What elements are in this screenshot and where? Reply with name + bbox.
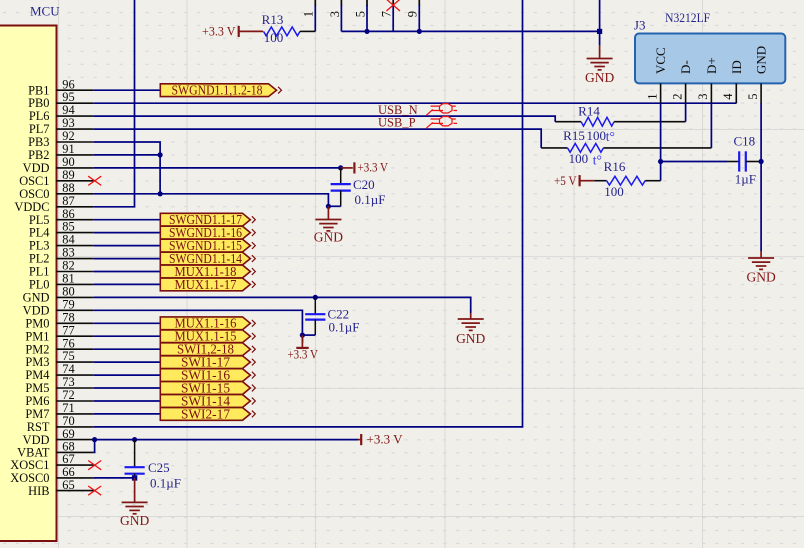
MCU pin 79 VDD [23, 297, 94, 317]
MCU pin 89 OSC1 [19, 168, 94, 188]
port SWI1-15 [160, 381, 255, 396]
svg-text:GND: GND [754, 46, 769, 74]
junction at pin9/GND wire [417, 29, 422, 34]
connector J3 N3212LF body [634, 10, 785, 84]
svg-text:+3.3 V: +3.3 V [367, 432, 404, 447]
svg-text:PB0: PB0 [28, 96, 49, 110]
wire RST net vertical [94, 0, 523, 427]
MCU pin 80 GND [23, 285, 94, 305]
MCU pin 91 PB2 [28, 142, 94, 162]
MCU pin 92 PB3 [28, 129, 94, 149]
svg-text:79: 79 [62, 297, 74, 311]
wire PB2 pin91 joins vertical [94, 154, 160, 156]
svg-text:0.1µF: 0.1µF [329, 320, 360, 335]
resistor R15 [541, 128, 711, 152]
port SWI1-17 [160, 356, 255, 371]
svg-text:GND: GND [23, 291, 50, 305]
MCU pin 69 VDD [23, 427, 94, 447]
svg-text:1µF: 1µF [735, 171, 756, 186]
port MUX1.1-17 [160, 278, 255, 293]
port SWI1,2-18 [160, 343, 255, 358]
ground symbol near connector [599, 46, 601, 59]
port SWI2-17 [160, 407, 255, 422]
svg-text:GND: GND [456, 331, 485, 346]
svg-text:t°: t° [606, 129, 615, 144]
svg-text:t°: t° [593, 153, 602, 168]
wire pin83 to port [94, 258, 161, 260]
svg-text:J3: J3 [634, 18, 646, 33]
svg-text:85: 85 [62, 220, 74, 234]
svg-text:1: 1 [645, 94, 659, 100]
port SWGND1.1-17 [160, 213, 255, 228]
capacitor C25 [125, 440, 181, 491]
svg-text:65: 65 [62, 478, 74, 492]
svg-text:PM0: PM0 [25, 316, 49, 330]
MCU pin 70 RST [27, 414, 94, 434]
svg-text:5: 5 [746, 94, 760, 100]
wire USB_P net (pin93 to R15) [94, 129, 541, 148]
MCU pin 96 PB1 [28, 77, 94, 97]
svg-text:PL0: PL0 [29, 278, 50, 292]
wire J3 D- pin2 down to R14 [685, 103, 687, 122]
svg-text:PM5: PM5 [25, 381, 49, 395]
svg-text:100: 100 [604, 184, 624, 199]
capacitor C22 [302, 297, 359, 335]
svg-text:MUX1.1-17: MUX1.1-17 [175, 278, 237, 293]
MCU pin 83 PL2 [29, 246, 94, 266]
wire pin71 to port [94, 413, 161, 415]
svg-text:PL2: PL2 [29, 252, 50, 266]
svg-text:R13: R13 [262, 12, 284, 27]
svg-text:88: 88 [62, 181, 74, 195]
MCU pin 94 PL6 [29, 103, 94, 123]
diff pair directive USB_P [426, 117, 457, 129]
wire C18 branch [661, 161, 727, 163]
MCU pin 90 VDD [23, 155, 94, 175]
junction VCC/C18 [658, 159, 663, 164]
MCU pin 95 PB0 [28, 90, 94, 110]
svg-text:PM7: PM7 [25, 407, 49, 421]
wire VDD pin90 to +3.3V [94, 167, 341, 169]
wire VBAT pin68 up to VDD net [93, 440, 96, 453]
svg-text:90: 90 [62, 155, 74, 169]
svg-text:+3.3 V: +3.3 V [287, 346, 318, 361]
MCU pin 76 PM2 [25, 336, 93, 356]
wire pin78 to port [94, 322, 161, 324]
ground at J3 pin5 [746, 251, 775, 285]
svg-text:78: 78 [62, 310, 74, 324]
capacitor C20 [328, 168, 385, 207]
J3 pin 5 GND [746, 46, 769, 103]
svg-text:PB2: PB2 [28, 148, 49, 162]
MCU pin 77 PM1 [25, 323, 93, 343]
svg-text:81: 81 [62, 272, 74, 286]
MCU pin 86 PL5 [29, 207, 94, 227]
svg-text:9: 9 [406, 11, 420, 17]
MCU pin 67 XOSC1 [10, 452, 94, 472]
svg-text:USB_P: USB_P [378, 116, 416, 130]
svg-text:4: 4 [721, 93, 735, 100]
svg-text:96: 96 [62, 77, 74, 91]
wire from top edge into GND junction [599, 0, 601, 31]
MCU pin 72 PM6 [25, 388, 93, 408]
wire VDD pin69 to +3.3V [95, 439, 358, 441]
svg-text:GND: GND [314, 229, 343, 244]
junction pin69/pin68 [92, 437, 97, 442]
port MUX1.1-18 [160, 265, 255, 280]
MCU pin 75 PM3 [25, 349, 93, 369]
svg-text:N3212LF: N3212LF [665, 10, 710, 25]
svg-text:D-: D- [678, 60, 693, 74]
MCU pin 81 PL0 [29, 272, 94, 292]
svg-text:93: 93 [62, 116, 74, 130]
wire pin85 to port [94, 232, 161, 234]
svg-text:80: 80 [62, 285, 74, 299]
svg-text:VCC: VCC [653, 47, 668, 74]
resistor R14 [555, 103, 685, 126]
ground at C20 [314, 206, 343, 244]
MCU pin 73 PM5 [25, 375, 93, 395]
svg-text:VDDC: VDDC [14, 200, 49, 214]
svg-text:73: 73 [62, 375, 74, 389]
J3 pin 3 D+ [696, 57, 719, 103]
svg-text:VDD: VDD [23, 161, 50, 175]
wire pin75 to port [94, 361, 161, 363]
junction at (599.6,31.4) [597, 29, 602, 34]
svg-text:PM4: PM4 [25, 368, 49, 382]
svg-text:77: 77 [62, 323, 74, 337]
svg-text:VDD: VDD [23, 303, 50, 317]
wire GND net: connector pins 3,5,9 to GND [341, 31, 599, 45]
connector P? pin 5 stub [366, 0, 368, 6]
resistor R13 [262, 12, 316, 45]
J3 pin 2 D- [670, 60, 693, 103]
port SWGND1.1-14 [160, 252, 255, 267]
port MUX1.1-16 [160, 317, 255, 332]
svg-text:SWI2-17: SWI2-17 [181, 407, 230, 422]
connector P? pin 7 stub [392, 0, 394, 6]
MCU pin 65 HIB [28, 478, 94, 498]
wire VDD pin79 down to +3.3V [94, 310, 303, 342]
diff pair directive USB_N [426, 104, 457, 116]
svg-text:84: 84 [62, 233, 74, 247]
svg-text:C18: C18 [734, 133, 756, 148]
MCU pin 85 PL4 [29, 220, 94, 240]
svg-text:PB3: PB3 [28, 135, 49, 149]
no-ERC cross XOSC1 pin67 [88, 461, 101, 470]
svg-text:2: 2 [670, 94, 684, 100]
wire USB_N net (pin94 to R14) [94, 116, 555, 122]
svg-text:MCU: MCU [30, 4, 60, 19]
svg-text:92: 92 [62, 129, 74, 143]
svg-text:82: 82 [62, 259, 74, 273]
svg-text:SWGND1.1,1.2-18: SWGND1.1,1.2-18 [172, 84, 263, 99]
svg-text:0.1µF: 0.1µF [355, 192, 386, 207]
power +3.3V at pin69 [358, 432, 403, 447]
svg-text:C20: C20 [353, 177, 375, 192]
svg-text:PB1: PB1 [28, 83, 49, 97]
svg-text:72: 72 [62, 388, 74, 402]
MCU pin 71 PM7 [25, 401, 93, 421]
svg-text:R16: R16 [604, 159, 626, 174]
svg-text:74: 74 [62, 362, 74, 376]
svg-text:3: 3 [696, 94, 710, 100]
svg-text:GND: GND [120, 513, 149, 528]
svg-text:PL7: PL7 [29, 122, 50, 136]
wire pin76 to port [94, 348, 161, 350]
wire J3 D+ pin3 down to R15 [710, 103, 712, 148]
svg-text:76: 76 [62, 336, 74, 350]
wire pin81 to port [94, 283, 161, 285]
wire OSC0 pin88 to C20/GND junction [94, 194, 329, 207]
svg-text:+3.3 V: +3.3 V [202, 24, 236, 39]
MCU pin 88 OSC0 [19, 181, 94, 201]
no-ERC cross on connector pin 7 [386, 0, 400, 11]
svg-text:95: 95 [62, 90, 74, 104]
connector P? pin 1 stub [314, 0, 316, 6]
wire J3 GND pin5 down [760, 103, 762, 251]
MCU pin 78 PM0 [25, 310, 93, 330]
junction pin69/C25 [132, 437, 137, 442]
MCU U? component body [0, 4, 60, 541]
port MUX1.1-15 [160, 330, 255, 345]
svg-text:PM3: PM3 [25, 355, 49, 369]
svg-text:94: 94 [62, 103, 74, 117]
junction square pin66 [132, 475, 137, 480]
svg-text:OSC1: OSC1 [19, 174, 49, 188]
svg-text:83: 83 [62, 246, 74, 260]
svg-text:PM6: PM6 [25, 394, 49, 408]
wire GND pin80 to ground [94, 297, 471, 313]
svg-text:C25: C25 [148, 460, 170, 475]
wire J3 VCC pin1 down to R16 [660, 103, 662, 181]
svg-text:PM1: PM1 [25, 329, 49, 343]
svg-text:100: 100 [587, 128, 607, 143]
junction VDD/C20 [338, 165, 343, 170]
wire VDDC pin87 up to top edge [94, 0, 135, 207]
MCU pin 82 PL1 [29, 259, 94, 279]
svg-text:ID: ID [729, 60, 744, 74]
wire pin84 to port [94, 245, 161, 247]
svg-text:PM2: PM2 [25, 342, 49, 356]
svg-text:GND: GND [746, 270, 775, 285]
MCU pin 74 PM4 [25, 362, 93, 382]
wire pin86 to port [94, 219, 161, 221]
junction C22 top [313, 295, 318, 300]
junction pin91 vertical [158, 152, 163, 157]
junction pin88 vertical [158, 191, 163, 196]
junction C22 bottom [300, 333, 305, 338]
power +3.3V below C22 [287, 335, 318, 361]
svg-text:75: 75 [62, 349, 74, 363]
wire pin73 to port [94, 387, 161, 389]
wire pin82 to port [94, 271, 161, 273]
connector P? pin 9 stub [418, 0, 420, 6]
no-ERC cross HIB pin65 [88, 486, 101, 495]
svg-text:OSC0: OSC0 [19, 187, 49, 201]
wire XOSC0 pin66 to GND junction [94, 477, 135, 479]
junction at pin5/GND wire [364, 29, 369, 34]
wire pin77 to port [94, 335, 161, 337]
wire USB ID net (pin95 to J3 pin4) [94, 102, 737, 104]
svg-text:87: 87 [62, 194, 74, 208]
svg-text:89: 89 [62, 168, 74, 182]
port SWI1-16 [160, 369, 255, 384]
junction C20 bottom [326, 204, 331, 209]
svg-text:HIB: HIB [28, 484, 49, 498]
MCU pin 93 PL7 [29, 116, 94, 136]
resistor R16 [594, 159, 660, 199]
svg-text:91: 91 [62, 142, 74, 156]
svg-text:+3.3 V: +3.3 V [358, 160, 389, 175]
svg-text:R14: R14 [578, 103, 600, 118]
svg-text:71: 71 [62, 401, 74, 415]
svg-text:GND: GND [585, 70, 614, 85]
J3 pin 4 ID [721, 60, 744, 103]
wire pin96 to port SWGND1.1,1.2-18 [94, 89, 161, 91]
junction C18/GND pin5 [759, 159, 764, 164]
MCU pin 84 PL3 [29, 233, 94, 253]
svg-text:D+: D+ [704, 57, 719, 74]
svg-text:5: 5 [353, 11, 367, 17]
power +3.3V at C20 [341, 160, 389, 175]
svg-text:+5 V: +5 V [554, 173, 577, 188]
wire PB3 pin92 to vertical [94, 142, 160, 194]
svg-text:7: 7 [380, 11, 394, 17]
port SWGND1.1-15 [160, 239, 255, 254]
connector P? pin 3 stub [340, 0, 342, 6]
svg-text:PL6: PL6 [29, 109, 50, 123]
MCU pin 66 XOSC0 [10, 465, 94, 485]
svg-text:PL4: PL4 [29, 226, 50, 240]
svg-text:0.1µF: 0.1µF [150, 475, 181, 490]
MCU pin 87 VDDC [14, 194, 93, 214]
svg-text:100: 100 [264, 30, 284, 45]
svg-text:R15: R15 [563, 128, 585, 143]
wire pin74 to port [94, 374, 161, 376]
svg-text:1: 1 [302, 11, 316, 17]
svg-text:100: 100 [569, 151, 589, 166]
power +5V [554, 173, 594, 188]
J3 pin 1 VCC [645, 47, 668, 103]
svg-text:PL3: PL3 [29, 239, 50, 253]
wire pin72 to port [94, 400, 161, 402]
MCU pin 68 VBAT [17, 440, 94, 460]
svg-text:86: 86 [62, 207, 74, 221]
port SWGND1.1,1.2-18 [160, 84, 281, 99]
svg-text:PL1: PL1 [29, 265, 50, 279]
ground at C25 [120, 478, 149, 528]
svg-text:PL5: PL5 [29, 213, 50, 227]
port SWGND1.1-16 [160, 226, 255, 241]
port SWI1-14 [160, 394, 255, 409]
no-ERC cross OSC1 pin89 [88, 176, 101, 185]
capacitor C18 [727, 133, 761, 186]
svg-text:3: 3 [328, 11, 342, 17]
